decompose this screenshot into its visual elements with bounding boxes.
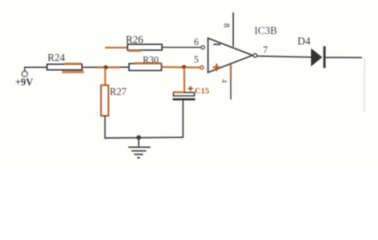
- wire pin 7 to D4: [257, 56, 311, 57]
- node A junction dot: [104, 65, 108, 69]
- power pin 4 wire (dark lower): [230, 80, 232, 100]
- resistor R26 orange highlight bottom-left: [128, 50, 141, 52]
- wire R30 to pin 5 (orange): [162, 66, 201, 69]
- capacitor C15 top plate orange highlight: [173, 91, 184, 93]
- wire R27 to bottom rail: [104, 116, 107, 138]
- wire D4 to right: [326, 56, 362, 58]
- op-amp plus sign (orange): [213, 64, 220, 71]
- svg-text:5: 5: [194, 56, 199, 66]
- op-amp minus sign: [213, 43, 220, 45]
- svg-text:4: 4: [220, 79, 228, 83]
- resistor R24 orange highlight bottom: [62, 71, 84, 74]
- capacitor C15 plus sign: [188, 86, 193, 91]
- svg-text:+9V: +9V: [15, 78, 34, 89]
- svg-text:R26: R26: [126, 35, 144, 46]
- svg-text:D4: D4: [298, 37, 312, 48]
- pin 7 output bubble: [253, 54, 257, 58]
- svg-text:R30: R30: [143, 56, 159, 66]
- wire bottom rail: [105, 136, 183, 139]
- node B junction dot: [182, 65, 186, 69]
- wire +9V to R24: [24, 66, 47, 68]
- node +9V terminal circle: [22, 71, 28, 77]
- wire node B down to C15 (orange): [183, 67, 185, 93]
- resistor R24: [47, 64, 82, 70]
- diode D4 anode triangle: [311, 48, 322, 66]
- op-amp U1 IC3B triangle: [208, 38, 253, 72]
- power pin 8 wire: [232, 12, 234, 46]
- wire R24 to node A (dark part): [82, 66, 98, 68]
- wire C15 to bottom rail: [182, 100, 184, 137]
- resistor R24 orange highlight top: [65, 63, 82, 65]
- pin 6 bubble: [201, 46, 204, 49]
- resistor R30: [129, 64, 162, 71]
- resistor R26: [128, 44, 163, 50]
- svg-text:C15: C15: [195, 85, 210, 95]
- wire stub to R26 (orange): [105, 47, 128, 49]
- svg-text:IC3B: IC3B: [254, 26, 277, 37]
- faint page artifact line: [363, 58, 365, 112]
- power pin 4 wire (orange upper): [230, 64, 232, 80]
- svg-text:8: 8: [222, 23, 232, 27]
- wire orange segment right of node A: [108, 66, 120, 68]
- svg-text:R27: R27: [110, 87, 127, 98]
- svg-text:6: 6: [194, 38, 199, 48]
- svg-text:R24: R24: [48, 53, 66, 64]
- node C junction dot (ground): [136, 135, 141, 140]
- ground: [128, 138, 150, 158]
- diode D4 cathode bar: [323, 46, 325, 68]
- pin 5 bubble: [200, 66, 203, 69]
- wire R26 to pin 6: [162, 46, 201, 48]
- wire node A down to R27 (orange): [104, 67, 106, 85]
- capacitor C15 top plate: [173, 93, 194, 96]
- svg-text:7: 7: [263, 46, 268, 56]
- wire node A to R30: [120, 66, 130, 68]
- wire +9V stub: [24, 67, 26, 71]
- resistor R27 (vertical, orange body): [101, 85, 108, 116]
- capacitor C15 bottom plate: [173, 98, 196, 100]
- wire orange segment left of node A: [98, 66, 105, 68]
- resistor R30 orange highlight top: [134, 62, 162, 64]
